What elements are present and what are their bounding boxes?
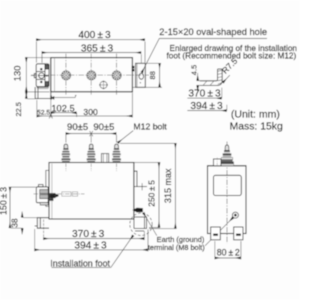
side nameplate	[214, 175, 242, 195]
dim 150±3	[0, 187, 36, 228]
svg-text:370 ± 3: 370 ± 3	[72, 229, 105, 240]
svg-text:4.5: 4.5	[189, 65, 198, 75]
plan terminal bolt 3	[112, 71, 121, 80]
svg-text:88: 88	[148, 71, 157, 79]
plan connector small circle bottom	[40, 81, 42, 83]
side body outline	[208, 166, 247, 234]
side bolt	[220, 145, 234, 166]
dim 250±5	[135, 163, 161, 228]
front right hanger tab	[134, 171, 147, 190]
dim 365±3	[42, 43, 141, 62]
plan connector small circle top	[40, 68, 42, 70]
svg-text:365 ± 3: 365 ± 3	[81, 43, 114, 54]
note enlarged drawing text	[167, 44, 298, 61]
svg-text:315 max: 315 max	[163, 168, 173, 203]
svg-text:22.5: 22.5	[14, 102, 23, 116]
svg-text:38: 38	[10, 218, 19, 228]
side centerline	[226, 142, 228, 244]
svg-text:(Unit: mm): (Unit: mm)	[231, 108, 280, 120]
dim 400±3	[36, 30, 145, 62]
plan leader blob at body lower-left	[50, 95, 76, 99]
svg-text:90±5: 90±5	[93, 122, 114, 133]
dim 370±3 (detail)	[187, 88, 221, 100]
front earth screw (right side, dark)	[132, 208, 142, 213]
plan right installation foot	[136, 63, 146, 87]
front connector	[36, 185, 48, 206]
svg-text:80 ± 2: 80 ± 2	[217, 247, 240, 257]
front left installation foot	[35, 218, 49, 229]
side earth terminal	[232, 212, 238, 218]
svg-text:52.5: 52.5	[37, 110, 50, 117]
svg-text:terminal (M8 bolt): terminal (M8 bolt)	[148, 243, 205, 252]
dim 370±3 (front)	[44, 220, 145, 241]
svg-text:370 ± 3: 370 ± 3	[188, 89, 221, 100]
dim 102.5	[51, 103, 77, 117]
svg-text:394 ± 3: 394 ± 3	[190, 101, 223, 112]
plan foot small dot	[140, 82, 141, 83]
side right foot	[234, 227, 243, 240]
plan body outline	[51, 58, 133, 92]
side left foot	[211, 227, 221, 240]
svg-text:Installation foot: Installation foot	[50, 258, 110, 268]
detail foot section plate	[200, 69, 222, 85]
front top hanger lug	[101, 154, 108, 163]
leader earth to front screw	[143, 213, 157, 236]
front body seam line	[51, 164, 53, 219]
front bolt centerline stubs	[66, 164, 117, 172]
svg-text:130: 130	[11, 66, 22, 82]
dim 394±3 (detail)	[187, 101, 226, 112]
dim 88	[133, 63, 162, 87]
dim 4.5	[189, 65, 200, 93]
plan connector big circle	[38, 73, 45, 79]
front bolt 2	[87, 144, 96, 162]
plan left foot / terminal block	[34, 64, 49, 87]
dim 130	[11, 58, 50, 92]
plan small earth screw	[99, 81, 108, 90]
side top-left tab	[213, 159, 221, 166]
front left mounting plate	[46, 170, 49, 206]
detail hatch	[203, 70, 222, 85]
front bolt 3	[112, 144, 121, 162]
svg-text:400 ± 3: 400 ± 3	[78, 30, 111, 41]
dim 80±2	[215, 241, 241, 259]
label M12 bolt	[118, 121, 168, 143]
detail reference dashed circle	[130, 213, 152, 235]
plan body seam line	[54, 58, 56, 92]
svg-text:M12 bolt: M12 bolt	[133, 121, 167, 131]
note leader 2-15x20 oval-shaped hole	[142, 27, 267, 73]
plan terminal bolt 1	[62, 71, 71, 80]
svg-text:250 ± 5: 250 ± 5	[147, 180, 157, 207]
dim 22.5	[14, 92, 38, 117]
label earth ground terminal	[148, 235, 205, 252]
dim 38	[10, 212, 37, 235]
side earth leader	[205, 217, 233, 246]
plan connector centerline stub	[31, 75, 35, 77]
dim 394±3 (front)	[35, 229, 148, 251]
plan oval-shaped hole	[139, 73, 144, 79]
plan connector bottom flange	[37, 87, 49, 89]
svg-text:Mass: 15kg: Mass: 15kg	[230, 121, 283, 132]
plan right hanger lug (dark)	[132, 66, 135, 71]
plan terminal bolt 2	[87, 71, 96, 80]
dim 315 max	[120, 143, 176, 228]
label R7.5	[220, 56, 240, 83]
svg-text:394 ± 3: 394 ± 3	[74, 240, 107, 251]
label installation foot	[50, 235, 133, 268]
svg-text:102.5: 102.5	[51, 103, 74, 113]
front centerline with phantom lugs	[34, 192, 85, 196]
front bolt 1	[61, 144, 70, 162]
dim 90±5 90±5	[66, 122, 117, 143]
plan left foot base protrusion below	[35, 87, 51, 99]
svg-text:300: 300	[83, 107, 98, 117]
front body outline	[49, 163, 134, 220]
plan horizontal centerline	[31, 74, 149, 76]
svg-text:2-15×20 oval-shaped hole: 2-15×20 oval-shaped hole	[159, 27, 267, 37]
dim 52.5 / 300 chain	[37, 93, 133, 119]
plan bolt centerline 1	[65, 54, 67, 96]
plan bolt centerline 2	[90, 54, 92, 96]
front terminal stud	[50, 193, 59, 201]
front right installation foot	[134, 217, 147, 231]
svg-text:90±5: 90±5	[67, 122, 88, 133]
svg-text:150 ± 3: 150 ± 3	[0, 187, 8, 215]
plan bolt centerline 3	[116, 54, 118, 96]
plan connector mid dashes	[46, 75, 49, 77]
